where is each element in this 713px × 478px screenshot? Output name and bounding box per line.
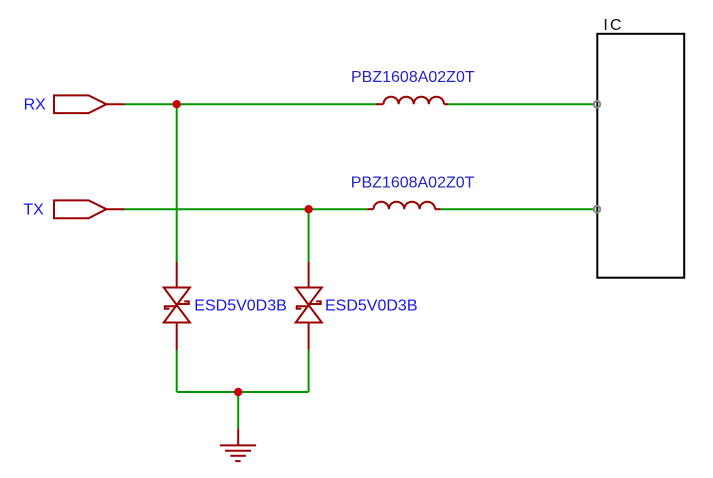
inductor L2 PBZ1608A02Z0T xyxy=(368,202,441,210)
svg-text:PBZ1608A02Z0T: PBZ1608A02Z0T xyxy=(351,175,475,192)
port TX xyxy=(54,200,125,218)
ground symbol xyxy=(220,445,256,461)
svg-text:ESD5V0D3B: ESD5V0D3B xyxy=(194,297,286,314)
wire TX left segment xyxy=(125,208,368,210)
TVS diode D2 ESD5V0D3B body xyxy=(296,288,322,323)
IC pin 1 connection xyxy=(594,101,601,108)
wire TX right segment xyxy=(441,208,596,210)
TVS diode D1 lead bottom xyxy=(176,323,178,351)
inductor L1 PBZ1608A02Z0T xyxy=(376,97,448,105)
wire ground stem xyxy=(237,392,239,429)
TVS diode D2 lead bottom xyxy=(308,323,310,351)
wire D1 bottom to ground bus xyxy=(176,350,178,392)
IC box U1 xyxy=(597,34,684,278)
junction node RX/D1 xyxy=(173,100,181,108)
svg-text:RX: RX xyxy=(24,97,47,114)
port RX xyxy=(54,95,125,113)
svg-text:ESD5V0D3B: ESD5V0D3B xyxy=(325,297,418,314)
wire RX left segment xyxy=(125,103,377,105)
junction node TX/D2 xyxy=(304,205,312,213)
svg-text:PBZ1608A02Z0T: PBZ1608A02Z0T xyxy=(351,69,475,86)
junction node ground bus xyxy=(234,388,242,396)
wire vertical from TX node down to D2 xyxy=(308,209,310,262)
wire ground bus horizontal xyxy=(177,391,309,393)
IC pin 2 connection xyxy=(594,206,601,213)
TVS diode D1 ESD5V0D3B body xyxy=(164,288,190,323)
TVS diode D1 ESD5V0D3B lead top xyxy=(176,262,178,288)
wire vertical from RX node down to D1 xyxy=(176,104,178,262)
svg-text:IC: IC xyxy=(603,17,623,34)
wire RX right segment xyxy=(448,103,595,105)
wire D2 bottom to ground bus xyxy=(308,350,310,392)
TVS diode D2 ESD5V0D3B lead top xyxy=(308,262,310,288)
ground lead xyxy=(237,429,239,446)
svg-text:TX: TX xyxy=(23,202,44,219)
